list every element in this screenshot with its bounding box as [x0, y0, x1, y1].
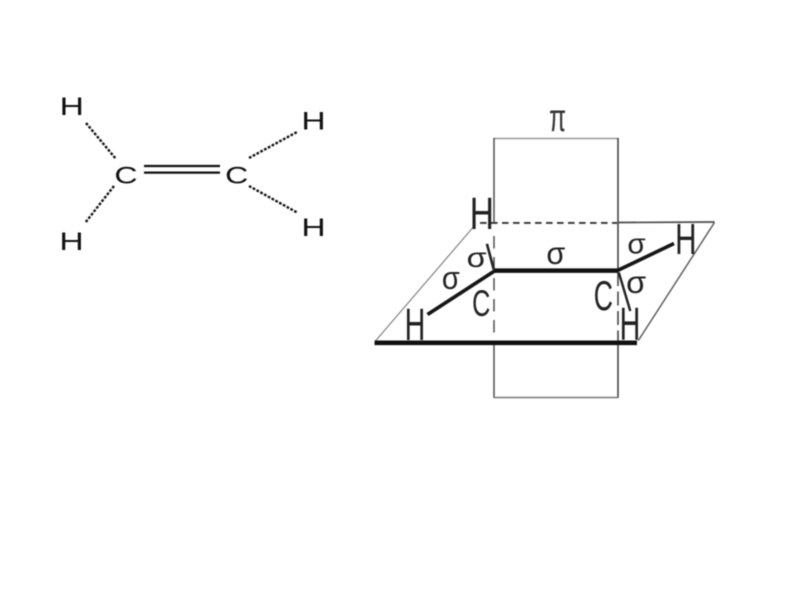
svg-text:σ: σ	[626, 264, 646, 300]
bond C1-H2	[85, 186, 114, 223]
pi plane rectangle left edge upper solid	[493, 138, 495, 223]
pi plane rectangle right edge upper solid	[617, 138, 619, 270]
molecular plane back edge hidden dashed	[480, 222, 617, 224]
svg-text:H: H	[620, 298, 641, 350]
svg-text:H: H	[301, 108, 325, 136]
bond CL to upper H	[487, 244, 494, 270]
svg-text:C: C	[472, 283, 490, 324]
pi plane rectangle top edge	[494, 138, 619, 140]
pi plane rectangle right edge hidden dashed	[617, 272, 619, 341]
molecular plane left slant edge	[376, 225, 475, 341]
pi plane rectangle bottom edge	[494, 397, 619, 399]
svg-text:H: H	[405, 299, 426, 350]
svg-text:H: H	[60, 93, 84, 121]
svg-text:H: H	[470, 188, 494, 239]
molecular plane back edge visible right	[618, 221, 715, 224]
svg-text:σ: σ	[546, 235, 565, 271]
svg-text:C: C	[114, 163, 137, 190]
svg-text:C: C	[594, 272, 613, 319]
pi plane rectangle left edge lower solid	[493, 345, 495, 398]
double bond C1=C2 upper line	[144, 165, 220, 167]
svg-text:σ: σ	[467, 242, 487, 273]
svg-text:σ: σ	[442, 259, 460, 296]
molecular plane front edge	[375, 340, 638, 345]
svg-text:C: C	[225, 163, 248, 190]
bond CR to lower-right H	[619, 273, 631, 312]
sigma bond C=C axis	[494, 268, 618, 273]
svg-text:π: π	[549, 97, 566, 140]
svg-text:H: H	[675, 216, 696, 264]
double bond C1=C2 lower line	[144, 172, 220, 174]
svg-text:H: H	[59, 228, 83, 256]
pi plane rectangle left edge hidden dashed	[493, 236, 495, 341]
pi plane rectangle right edge lower solid	[617, 345, 619, 398]
bond CR to upper-right H	[618, 244, 675, 271]
molecular plane right slant edge	[638, 223, 714, 341]
bond C2-H3	[249, 132, 297, 158]
bond CL to lower-left H	[428, 271, 495, 315]
svg-text:σ: σ	[627, 229, 646, 261]
bond C2-H4	[249, 186, 298, 213]
svg-text:H: H	[301, 214, 325, 242]
bond H1-C1	[86, 123, 116, 159]
